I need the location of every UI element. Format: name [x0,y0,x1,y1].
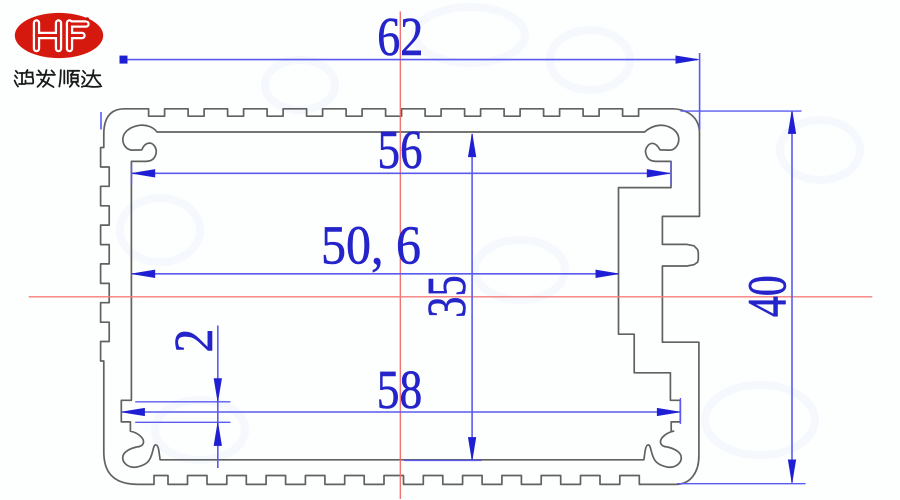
logo [15,13,104,87]
svg-text:2: 2 [164,329,225,353]
dim 35 (vertical) [404,134,482,461]
dim 58 [122,360,681,424]
svg-text:56: 56 [378,120,423,181]
red centerline vertical [399,12,401,500]
da [83,71,85,74]
profile outline: outer boundary [101,109,700,485]
profile outline: inner cavity [121,125,681,467]
Chinese characters 鸿发顺达 hand strokes [15,70,102,87]
dim 2 (vertical, small) [135,326,230,469]
red ellipse [15,13,103,58]
dimension group [101,7,806,484]
shun [59,70,61,87]
trademark dot [86,17,89,20]
svg-text:35: 35 [417,275,478,317]
fa [39,71,42,74]
svg-text:62: 62 [377,7,423,68]
hong [16,71,18,73]
svg-text:58: 58 [377,360,423,421]
dim 56 [132,120,672,185]
svg-text:40: 40 [738,275,799,317]
red centerline horizontal [29,296,873,298]
dim 50,6 [132,215,619,277]
dim 62 [101,7,700,130]
svg-text:50, 6: 50, 6 [321,215,421,276]
watermark (faint) [120,7,860,460]
HF white tube letters [37,23,87,49]
dim 40 (vertical, right) [677,111,806,484]
